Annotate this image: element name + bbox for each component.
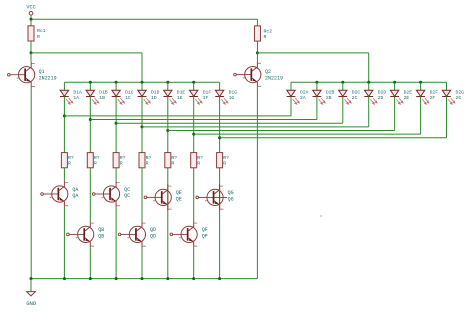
- wire segment D net horizontal: [142, 126, 369, 128]
- QB base pin 2: [76, 236, 78, 239]
- junction ground node QA: [63, 277, 66, 280]
- wire D2C cathode drop: [342, 97, 344, 124]
- resistor Rc1: [28, 26, 46, 41]
- junction bus node D2E: [393, 81, 396, 84]
- svg-text:QD: QD: [150, 234, 156, 240]
- wire Rc2 bottom to collector node: [256, 41, 258, 53]
- svg-text:D2C: D2C: [352, 89, 361, 95]
- svg-text:D2E: D2E: [404, 89, 413, 95]
- power symbol VCC: [26, 4, 35, 15]
- resistor Rc2: [254, 26, 272, 41]
- svg-text:1G: 1G: [229, 95, 235, 101]
- wire D2A cathode drop: [290, 97, 292, 116]
- svg-text:VCC: VCC: [26, 4, 35, 10]
- wire VCC stub down: [30, 15, 32, 19]
- svg-text:1A: 1A: [73, 95, 79, 101]
- junction segment A net node: [63, 114, 66, 117]
- svg-text:QA: QA: [72, 187, 78, 193]
- transistor QE (NPN): [144, 184, 182, 210]
- wire segment G cathode column: [219, 97, 221, 153]
- wire D2B cathode drop: [316, 97, 318, 120]
- QC emitter pin 3: [110, 197, 116, 207]
- QF base pin: [173, 233, 188, 235]
- junction ground node QC: [115, 277, 118, 280]
- svg-text:QB: QB: [98, 234, 104, 240]
- svg-text:D2A: D2A: [300, 89, 309, 95]
- wire QB collector wire: [89, 168, 91, 222]
- junction bus node D2D: [367, 81, 370, 84]
- wire digit-2 anode feed drop at D2D: [368, 53, 370, 82]
- wire QD collector wire: [141, 168, 143, 222]
- svg-text:D1A: D1A: [73, 89, 82, 95]
- Q1 base bar: [24, 69, 26, 81]
- wire segment E net horizontal: [168, 130, 395, 132]
- svg-text:D2D: D2D: [378, 89, 387, 95]
- QE collector-emitter pin overlay: [167, 190, 169, 205]
- junction ground node QG: [218, 277, 221, 280]
- svg-text:R?: R?: [94, 155, 100, 161]
- junction bus node D2C: [341, 81, 344, 84]
- svg-text:2A: 2A: [300, 95, 306, 101]
- wire D2D cathode drop: [368, 97, 370, 127]
- QB base pin open end: [67, 233, 70, 236]
- svg-text:2N2219: 2N2219: [265, 75, 283, 81]
- QC base pin open end: [92, 193, 95, 196]
- svg-text:QC: QC: [124, 193, 130, 199]
- svg-text:R: R: [94, 161, 97, 167]
- wire QA collector wire: [63, 168, 65, 181]
- LED diode D1E: [163, 82, 185, 104]
- svg-text:QF: QF: [202, 227, 208, 233]
- transistor QG (NPN): [196, 184, 234, 210]
- QA collector pin 1: [59, 181, 65, 191]
- wire segment G net horizontal: [220, 137, 447, 139]
- QD emitter pin 3: [136, 238, 142, 248]
- wire node to Q1 collector: [30, 53, 32, 62]
- Q2 collector pin 1: [252, 62, 258, 72]
- QE base pin: [147, 196, 162, 198]
- junction segment E net node: [166, 129, 169, 132]
- svg-text:QF: QF: [202, 234, 208, 240]
- wire VCC to Rc1 top: [30, 19, 32, 26]
- QG collector pin 1: [214, 184, 220, 194]
- wire Q2 emitter to ground bus: [256, 88, 258, 279]
- transistor Q2 (NPN): [234, 62, 283, 88]
- QC base pin 2: [102, 196, 104, 199]
- junction bus node D2B: [315, 81, 318, 84]
- wire segment B net horizontal: [90, 119, 317, 121]
- svg-text:R: R: [120, 161, 123, 167]
- junction bus node D2F: [419, 81, 422, 84]
- wire Rc1 bottom to collector node: [30, 41, 32, 53]
- Q2 emitter pin 3: [252, 78, 258, 88]
- svg-text:R?: R?: [146, 155, 152, 161]
- junction bus node D1D: [141, 81, 144, 84]
- wire D2E cathode drop: [394, 97, 396, 131]
- junction ground node QF: [192, 277, 195, 280]
- QG body circle: [207, 189, 223, 205]
- wire QD emitter wire: [141, 247, 143, 278]
- QF base pin open end: [170, 233, 173, 236]
- svg-text:QA: QA: [72, 193, 78, 199]
- QG base pin 2: [205, 199, 207, 202]
- LED diode D1C: [112, 82, 134, 104]
- svg-text:D2G: D2G: [456, 89, 465, 95]
- resistor RD (R?): [139, 153, 151, 168]
- QC base bar: [109, 188, 111, 200]
- QG base pin open end: [196, 196, 199, 199]
- resistor RF (R?): [191, 153, 203, 168]
- transistor QC (NPN): [92, 181, 130, 207]
- QD collector pin 1: [136, 221, 142, 231]
- QF base pin 2: [179, 236, 181, 239]
- svg-text:R: R: [197, 161, 200, 167]
- wire segment F net horizontal: [194, 133, 421, 135]
- LED diode D2B: [313, 82, 335, 104]
- LED diode D1D: [138, 82, 160, 104]
- QC body circle: [103, 186, 119, 202]
- QF collector pin 1: [188, 221, 194, 231]
- svg-text:1F: 1F: [203, 95, 209, 101]
- QE base pin open end: [144, 196, 147, 199]
- QE base bar: [161, 191, 163, 203]
- wire Q1 emitter to ground bus: [30, 88, 32, 279]
- wire digit-2 anode feed horizontal: [257, 52, 368, 54]
- Q2 base pin: [236, 74, 251, 76]
- junction ground node Q1: [30, 277, 33, 280]
- svg-text:1C: 1C: [125, 95, 131, 101]
- svg-text:1E: 1E: [177, 95, 183, 101]
- QB collector pin 1: [84, 221, 90, 231]
- QA base pin: [43, 193, 58, 195]
- QE collector pin 1: [162, 184, 168, 194]
- LED diode D1B: [86, 82, 108, 104]
- transistor Q1 (NPN): [8, 62, 57, 88]
- svg-text:D1B: D1B: [99, 89, 108, 95]
- svg-text:1D: 1D: [151, 95, 157, 101]
- LED diode D2D: [364, 82, 386, 104]
- svg-text:1B: 1B: [99, 95, 105, 101]
- resistor RB (R?): [87, 153, 99, 168]
- QA emitter pin 3: [59, 197, 65, 207]
- QA base pin open end: [41, 193, 44, 196]
- QD base bar: [135, 228, 137, 240]
- svg-text:R?: R?: [68, 155, 74, 161]
- wire digit-1 anode feed drop at D1D: [141, 53, 143, 82]
- svg-text:2G: 2G: [456, 95, 462, 101]
- wire QF emitter wire: [193, 247, 195, 278]
- wire digit-1 common anode bus: [64, 81, 219, 83]
- Q1 body circle: [19, 67, 35, 83]
- svg-text:R: R: [223, 161, 226, 167]
- svg-text:2E: 2E: [404, 95, 410, 101]
- wire QG collector-emitter through wire: [219, 168, 221, 279]
- LED diode D2G: [442, 82, 464, 104]
- wire digit-1 anode feed horizontal: [31, 52, 142, 54]
- junction segment F net node: [192, 133, 195, 136]
- svg-text:R: R: [68, 161, 71, 167]
- svg-text:2C: 2C: [352, 95, 358, 101]
- svg-text:QC: QC: [124, 187, 130, 193]
- LED diode D1F: [189, 82, 211, 104]
- wire D2F cathode drop: [420, 97, 422, 135]
- LED diode D2F: [416, 82, 438, 104]
- LED diode D1G: [215, 82, 237, 104]
- wire QF collector wire: [193, 168, 195, 222]
- svg-text:2N2219: 2N2219: [39, 75, 57, 81]
- junction segment D net node: [141, 125, 144, 128]
- QE base pin 2: [153, 199, 155, 202]
- wire QE collector-emitter through wire: [167, 168, 169, 279]
- Q2 body circle: [245, 67, 261, 83]
- QC collector pin 1: [110, 181, 116, 191]
- power symbol GND: [26, 279, 37, 308]
- svg-text:R?: R?: [223, 155, 229, 161]
- LED diode D2E: [390, 82, 412, 104]
- svg-text:GND: GND: [26, 300, 37, 307]
- wire segment E cathode column: [167, 97, 169, 153]
- svg-text:D2B: D2B: [326, 89, 335, 95]
- transistor QF (NPN): [170, 221, 208, 247]
- wire segment B cathode column: [89, 97, 91, 153]
- junction segment B net node: [89, 118, 92, 121]
- svg-text:QG: QG: [228, 197, 234, 203]
- Q1 base pin: [10, 74, 25, 76]
- svg-text:QE: QE: [176, 190, 182, 196]
- LED diode D2C: [338, 82, 360, 104]
- QG emitter pin 3: [214, 201, 220, 211]
- wire digit-2 common anode bus: [291, 81, 447, 83]
- junction ground node QD: [141, 277, 144, 280]
- wire QC collector wire: [115, 168, 117, 181]
- wire segment D cathode column: [141, 97, 143, 153]
- transistor QA (NPN): [41, 181, 79, 207]
- svg-text:R: R: [146, 161, 149, 167]
- QB emitter pin 3: [84, 238, 90, 248]
- QD base pin open end: [118, 233, 121, 236]
- svg-text:Q2: Q2: [265, 69, 271, 75]
- wire segment F cathode column: [193, 97, 195, 153]
- svg-text:QG: QG: [228, 190, 234, 196]
- faint artifact mark: [320, 215, 322, 217]
- svg-text:D1E: D1E: [177, 89, 186, 95]
- QD base pin 2: [127, 236, 129, 239]
- svg-text:D2F: D2F: [430, 89, 439, 95]
- svg-text:Rc1: Rc1: [37, 28, 46, 34]
- svg-text:R: R: [171, 161, 174, 167]
- wire QA emitter wire: [63, 207, 65, 279]
- svg-text:R?: R?: [171, 155, 177, 161]
- transistor QB (NPN): [67, 221, 105, 247]
- svg-text:R: R: [37, 34, 40, 40]
- QD base pin: [121, 233, 136, 235]
- QG base pin: [198, 196, 227, 198]
- QF emitter pin 3: [188, 238, 194, 248]
- QA base pin 2: [50, 196, 52, 199]
- junction bus node D1E: [166, 81, 169, 84]
- QG collector-emitter pin overlay: [219, 190, 221, 205]
- wire segment C net horizontal: [116, 122, 343, 124]
- wire QB emitter wire: [89, 247, 91, 278]
- wire D2G cathode drop: [446, 97, 448, 138]
- wire VCC top rail to Rc2: [31, 18, 257, 20]
- junction Q1 collector node: [30, 51, 33, 54]
- QC base pin: [95, 193, 110, 195]
- junction segment G net node: [218, 136, 221, 139]
- junction ground node QE: [166, 277, 169, 280]
- svg-text:Q1: Q1: [39, 69, 45, 75]
- wire ground bus: [31, 278, 257, 280]
- junction bus node D1B: [89, 81, 92, 84]
- QB base pin: [69, 233, 84, 235]
- svg-text:R?: R?: [197, 155, 203, 161]
- QF base bar: [187, 228, 189, 240]
- svg-text:QB: QB: [98, 227, 104, 233]
- Q1 collector pin 1: [25, 62, 31, 72]
- QB base bar: [83, 228, 85, 240]
- Q2 base pin 2: [243, 77, 245, 80]
- Q2 base bar: [251, 68, 253, 80]
- svg-text:2B: 2B: [326, 95, 332, 101]
- wire node to Q2 collector: [256, 53, 258, 62]
- svg-text:R?: R?: [120, 155, 126, 161]
- QA base bar: [58, 188, 60, 200]
- svg-text:D1G: D1G: [229, 89, 238, 95]
- svg-text:D1F: D1F: [203, 89, 212, 95]
- svg-text:2D: 2D: [378, 95, 384, 101]
- svg-text:Rc2: Rc2: [263, 28, 272, 34]
- wire QC emitter wire: [115, 207, 117, 279]
- Q1 emitter pin 3: [25, 78, 31, 88]
- svg-text:2F: 2F: [430, 95, 436, 101]
- LED diode D1A: [60, 82, 82, 104]
- Q2 base pin open end: [234, 73, 237, 76]
- resistor RC (R?): [113, 153, 125, 168]
- resistor RA (R?): [61, 153, 73, 168]
- junction segment C net node: [115, 122, 118, 125]
- QG base bar: [213, 191, 215, 203]
- resistor RE (R?): [165, 153, 177, 168]
- QE body circle: [155, 189, 171, 205]
- svg-text:QD: QD: [150, 227, 156, 233]
- transistor QD (NPN): [118, 221, 156, 247]
- junction ground node QB: [89, 277, 92, 280]
- junction bus node D1F: [192, 81, 195, 84]
- QE emitter pin 3: [162, 201, 168, 211]
- wire segment A cathode column: [63, 97, 65, 153]
- QD body circle: [129, 226, 145, 242]
- svg-text:D1D: D1D: [151, 89, 160, 95]
- wire segment C cathode column: [115, 97, 117, 153]
- Q1 base pin open end: [8, 73, 11, 76]
- svg-text:QE: QE: [176, 197, 182, 203]
- Q1 base pin 2: [17, 77, 19, 80]
- junction VCC rail / Rc1 node: [30, 18, 33, 21]
- LED diode D2A: [287, 82, 309, 104]
- QB body circle: [78, 226, 94, 242]
- QF body circle: [181, 226, 197, 242]
- wire segment A net horizontal: [64, 115, 291, 117]
- svg-text:R: R: [263, 34, 266, 40]
- QA body circle: [52, 186, 68, 202]
- wire top rail down to Rc2 top: [256, 19, 258, 26]
- svg-text:D1C: D1C: [125, 89, 134, 95]
- junction Q2 collector node: [256, 51, 259, 54]
- resistor RG (R?): [217, 153, 229, 168]
- junction bus node D1C: [115, 81, 118, 84]
